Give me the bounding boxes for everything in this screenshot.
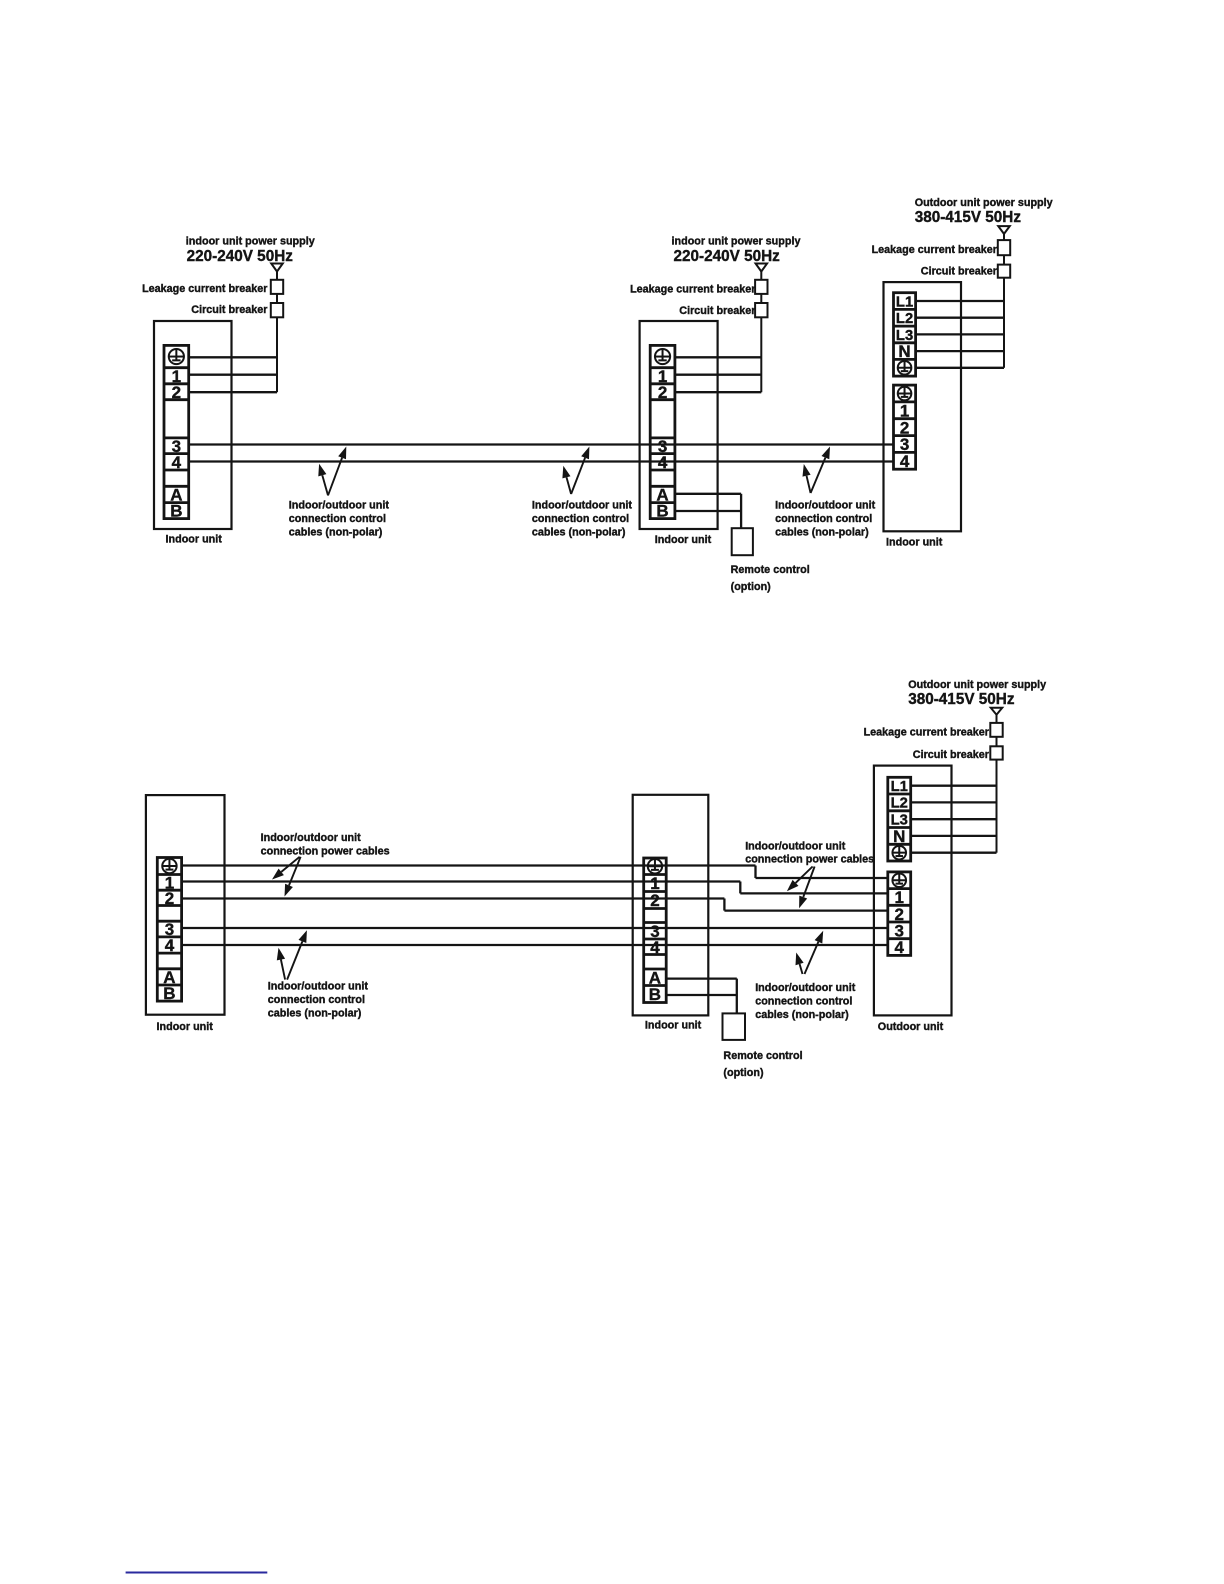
svg-text:Indoor unit: Indoor unit (166, 534, 223, 546)
svg-text:connection control: connection control (289, 513, 386, 525)
top callout 3: arrow to control wire 3 (811, 458, 826, 493)
wire: control line 4 (left unit terminal 4 to right unit terminal 4) (188, 460, 894, 462)
top callout 2: arrow to control wire 4 (567, 477, 572, 494)
top callout 1: arrow to control wire 4 (322, 475, 328, 495)
bottom-right callout: arrow to control wire 4 (800, 964, 803, 974)
top callout 3: arrow to control wire 4 (807, 476, 811, 493)
bottom-middle terminal block (pins &#8853; 1 2 3 4 A B) (644, 858, 667, 1004)
top-left wire: terminal 2 to power supply (189, 391, 277, 393)
bottom-right callout: arrow to power wire 2 (803, 867, 814, 898)
svg-text:380-415V 50Hz: 380-415V 50Hz (908, 691, 1015, 708)
wire: power line earth into outdoor earth terminal (756, 877, 889, 879)
svg-text:B: B (656, 502, 668, 521)
svg-text:B: B (163, 984, 175, 1003)
svg-text:cables (non-polar): cables (non-polar) (775, 527, 869, 539)
svg-text:2: 2 (650, 891, 659, 910)
svg-text:(option): (option) (731, 581, 772, 593)
bottom-middle indoor unit box (633, 795, 709, 1016)
bottom-middle remote control box (723, 1013, 746, 1040)
svg-text:N: N (898, 342, 910, 361)
bottom-middle wire: drop to remote control (736, 979, 738, 1014)
bottom-right wire: circuit breaker down to unit supply wires (996, 760, 998, 853)
wire: control line 3 (left unit terminal 3 to right unit terminal 3) (188, 443, 894, 445)
top-right wire: leakage breaker to circuit breaker (1003, 255, 1005, 264)
top-left indoor unit box (154, 321, 232, 529)
svg-text:Circuit breaker: Circuit breaker (679, 305, 756, 317)
svg-text:Indoor unit: Indoor unit (645, 1020, 702, 1032)
bottom-right wire: terminal L1 to power supply (911, 785, 997, 787)
svg-text:4: 4 (172, 453, 182, 472)
svg-text:L2: L2 (896, 311, 913, 327)
bottom-right wire: terminal L3 to power supply (911, 818, 997, 820)
top-left wire: supply to leakage breaker (276, 272, 278, 280)
svg-text:cables (non-polar): cables (non-polar) (532, 527, 626, 539)
svg-text:Remote control: Remote control (723, 1050, 802, 1062)
top-middle wire: leakage breaker to circuit breaker (760, 294, 762, 303)
top-middle wire: supply to leakage breaker (760, 272, 762, 280)
svg-text:Remote control: Remote control (731, 564, 810, 576)
svg-text:Indoor/outdoor unit: Indoor/outdoor unit (268, 981, 369, 993)
svg-text:L1: L1 (896, 294, 913, 310)
top-right leakage current breaker box (998, 240, 1010, 255)
bottom-right wire: terminal L2 to power supply (911, 801, 997, 803)
svg-text:Indoor/outdoor unit: Indoor/outdoor unit (775, 500, 876, 512)
bottom-right outdoor unit box (874, 766, 952, 1016)
top-right unit box (884, 282, 962, 531)
svg-text:cables (non-polar): cables (non-polar) (289, 527, 383, 539)
svg-text:4: 4 (165, 936, 175, 955)
svg-text:connection power cables: connection power cables (745, 854, 874, 866)
bottom-middle wire: terminal A to remote control (666, 977, 737, 979)
svg-text:connection control: connection control (268, 994, 365, 1006)
top-middle wire: earth terminal to power supply (675, 356, 761, 358)
svg-text:B: B (170, 502, 182, 521)
wire: power line earth (left unit to step-down) (182, 864, 756, 866)
top-middle circuit breaker box (755, 303, 767, 317)
svg-text:4: 4 (900, 452, 910, 471)
wire: control line 4 (left unit to outdoor terminal 4) (182, 944, 889, 946)
bottom-middle wire: terminal B to remote control (666, 994, 737, 996)
bottom-right wire: earth terminal to power supply (911, 852, 997, 854)
bottom-right callout: arrow to control wire 3 (805, 942, 819, 974)
svg-text:B: B (649, 985, 661, 1004)
top-left wire: leakage breaker to circuit breaker (276, 294, 278, 303)
svg-text:L2: L2 (891, 796, 908, 812)
svg-text:(option): (option) (723, 1067, 764, 1079)
wire: power line 2 (left unit to step-down) (182, 897, 725, 899)
svg-text:Indoor/outdoor unit: Indoor/outdoor unit (755, 982, 856, 994)
footer blue underline (126, 1572, 268, 1574)
svg-text:Outdoor unit power supply: Outdoor unit power supply (908, 679, 1046, 691)
bottom-right wire: leakage breaker to circuit breaker (996, 737, 998, 747)
svg-text:connection control: connection control (532, 513, 629, 525)
svg-text:cables (non-polar): cables (non-polar) (268, 1008, 362, 1020)
top-right wire: terminal L3 to power supply (916, 333, 1004, 335)
bottom-left terminal block (pins &#8853; 1 2 3 4 A B) (157, 858, 181, 1004)
svg-text:Indoor/outdoor unit: Indoor/outdoor unit (532, 500, 633, 512)
top-right wire: supply to leakage breaker (1003, 234, 1005, 240)
bottom-right wire: supply to leakage breaker (996, 715, 998, 723)
bottom-left callout: arrow to control wire 3 (287, 941, 302, 979)
svg-text:Leakage current breaker: Leakage current breaker (864, 727, 990, 739)
top-middle wire: terminal 1 to power supply (675, 374, 761, 376)
top-middle indoor unit box (640, 321, 718, 529)
svg-text:380-415V 50Hz: 380-415V 50Hz (915, 209, 1022, 226)
wire: power line 1 step down (739, 882, 741, 894)
top-right wire: circuit breaker down to unit supply wires (1003, 278, 1005, 368)
top-right wire: terminal L2 to power supply (916, 317, 1004, 319)
top-right wire: terminal N to power supply (916, 350, 1004, 352)
top-middle wire: terminal 2 to power supply (675, 391, 761, 393)
svg-text:indoor unit power supply: indoor unit power supply (672, 236, 801, 248)
svg-text:L1: L1 (891, 779, 908, 795)
svg-text:Indoor/outdoor unit: Indoor/outdoor unit (745, 841, 846, 853)
svg-text:2: 2 (658, 383, 667, 402)
top callout 2: arrow to control wire 3 (571, 458, 585, 494)
top-middle wire: circuit breaker down to unit supply wires (760, 317, 762, 392)
top-right power supply arrow symbol (998, 226, 1010, 234)
top-left wire: earth terminal to power supply (189, 356, 277, 358)
svg-text:Indoor/outdoor unit: Indoor/outdoor unit (261, 832, 362, 844)
svg-text:Leakage current breaker: Leakage current breaker (630, 284, 756, 296)
bottom-right callout: arrow to power wire 1 (796, 867, 813, 883)
top-right circuit breaker box (998, 265, 1010, 278)
svg-text:4: 4 (658, 453, 668, 472)
svg-text:Circuit breaker: Circuit breaker (191, 304, 268, 316)
top-right wire: earth terminal to power supply (916, 367, 1004, 369)
svg-text:4: 4 (650, 938, 660, 957)
top-left wire: circuit breaker down to unit supply wires (276, 317, 278, 392)
bottom-right leakage current breaker box (990, 723, 1002, 737)
top-middle wire: terminal A to remote control (675, 493, 741, 495)
top-middle wire: terminal B to remote control (675, 510, 741, 512)
top-left wire: terminal 1 to power supply (189, 374, 277, 376)
svg-text:Outdoor unit power supply: Outdoor unit power supply (915, 197, 1053, 209)
svg-text:Leakage current breaker: Leakage current breaker (142, 283, 268, 295)
wire: power line 2 into outdoor terminal 2 (724, 909, 888, 911)
svg-text:Indoor unit: Indoor unit (157, 1021, 214, 1033)
top-middle power supply arrow symbol (756, 264, 768, 272)
top-middle terminal block (pins &#8853; 1 2 3 4 A B) (650, 345, 675, 520)
svg-text:2: 2 (165, 889, 174, 908)
top-middle remote control box (732, 528, 753, 555)
svg-text:Circuit breaker: Circuit breaker (921, 265, 998, 277)
top-right power terminal block (pins L1 L2 L3 N &#8853;) (894, 293, 916, 376)
svg-text:Outdoor unit: Outdoor unit (878, 1021, 944, 1033)
bottom-right wire: terminal N to power supply (911, 835, 997, 837)
svg-text:connection power cables: connection power cables (261, 846, 390, 858)
wire: power line 1 (left unit to step-down) (182, 880, 741, 882)
svg-text:connection control: connection control (755, 996, 852, 1008)
wire: power line earth step down (754, 866, 756, 879)
svg-text:connection control: connection control (775, 513, 872, 525)
top-right wire: terminal L1 to power supply (916, 300, 1004, 302)
svg-text:Indoor unit: Indoor unit (655, 534, 712, 546)
bottom-right control terminal block (pins &#8853; 1 2 3 4) (888, 872, 911, 957)
svg-text:4: 4 (895, 938, 905, 957)
wire: power line 2 step down (723, 899, 725, 911)
top-right control terminal block (pins &#8853; 1 2 3 4) (894, 385, 916, 471)
top-middle wire: drop to remote control (740, 494, 742, 528)
svg-text:cables (non-polar): cables (non-polar) (755, 1009, 849, 1021)
svg-text:220-240V 50Hz: 220-240V 50Hz (187, 248, 294, 265)
bottom-right circuit breaker box (990, 746, 1002, 759)
top-left leakage current breaker box (271, 280, 283, 294)
svg-text:Indoor unit: Indoor unit (886, 537, 943, 549)
wire: power line 1 into outdoor terminal 1 (740, 892, 888, 894)
bottom-left callout: arrow to power wire 2 (289, 857, 301, 886)
wire: control line 3 (left unit to outdoor terminal 3) (182, 927, 889, 929)
bottom-left indoor unit box (146, 795, 225, 1015)
svg-text:N: N (893, 827, 905, 846)
bottom-right power terminal block (pins L1 L2 L3 N &#8853;) (888, 777, 911, 861)
top-left terminal block (pins &#8853; 1 2 3 4 A B) (164, 345, 189, 520)
bottom-left callout: arrow to power wire 1 (281, 857, 299, 872)
svg-text:220-240V 50Hz: 220-240V 50Hz (674, 248, 781, 265)
svg-text:Leakage current breaker: Leakage current breaker (872, 244, 998, 256)
top-left power supply arrow symbol (271, 264, 283, 272)
top-left circuit breaker box (271, 303, 283, 317)
top callout 1: arrow to control wire 3 (328, 458, 342, 496)
top-middle leakage current breaker box (755, 280, 767, 294)
svg-text:indoor unit power supply: indoor unit power supply (186, 236, 315, 248)
bottom-right power supply arrow symbol (991, 708, 1003, 715)
svg-text:Indoor/outdoor unit: Indoor/outdoor unit (289, 500, 390, 512)
bottom-left callout: arrow to control wire 4 (281, 960, 285, 980)
svg-text:Circuit breaker: Circuit breaker (913, 749, 990, 761)
svg-text:2: 2 (172, 383, 181, 402)
